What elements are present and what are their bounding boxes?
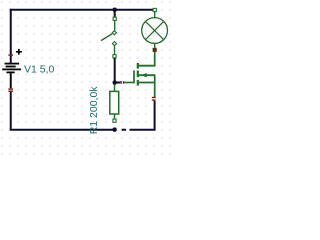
transistor Q1 n-channel MOSFET [124,52,155,98]
lamp L1 [142,8,168,51]
pin connection marker (red) at MOSFET gate [120,81,124,84]
wire: from source marker down to bottom wire [154,101,156,130]
node: junction at resistor bottom [112,127,117,132]
wire: bottom horizontal right section to source [130,129,156,131]
svg-text:V1 5,0: V1 5,0 [24,64,55,76]
wire: top horizontal from corner to lamp top pin [10,9,153,11]
wire: bottom horizontal left section [10,129,116,131]
node: junction at top wire and switch [112,8,117,13]
svg-text:R1 200,0k: R1 200,0k [88,86,100,135]
wire: battery bottom to bottom-left corner [10,92,12,130]
resistor R1 [110,85,119,123]
wire: stub from top junction to switch top pin [114,10,116,18]
switch SW1 (open) [101,17,117,58]
label: R1 200,0k (rotated) [88,86,100,135]
wire: bottom dashed fragment right of junction [122,129,127,131]
pin connection marker (red) at MOSFET source [152,97,156,101]
node: junction at gate / resistor top [112,80,117,85]
wire: left vertical from top-left corner down to battery top [10,9,12,64]
wire: stub from junction toward MOSFET gate [115,82,121,84]
label: V1 5,0 [24,64,55,76]
battery V1 [2,49,22,92]
wire: from switch bottom pin down to gate junction [114,58,116,83]
